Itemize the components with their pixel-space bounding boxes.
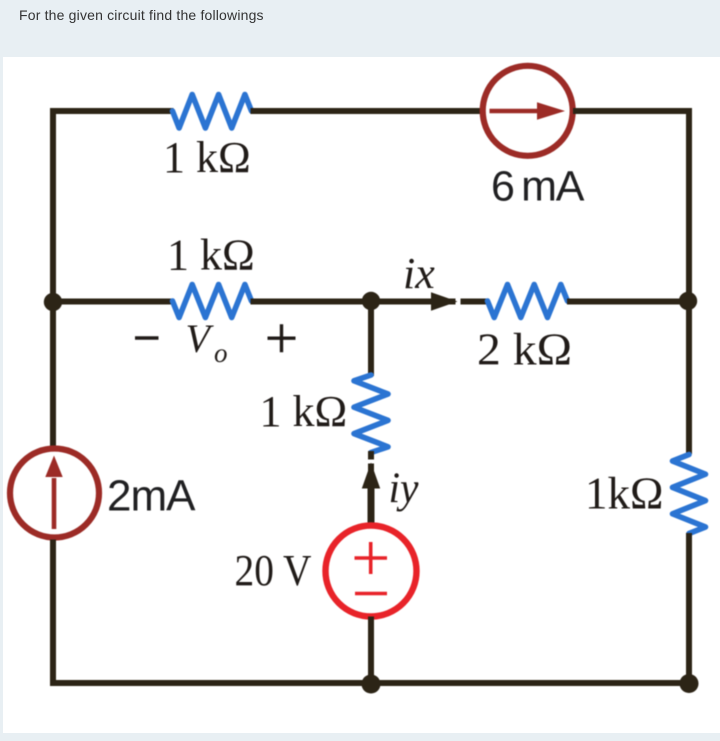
current arrow iy shaft xyxy=(368,486,375,523)
wire: bottom xyxy=(50,680,692,686)
voltage source V1 minus sign xyxy=(355,592,387,596)
svg-text:1kΩ: 1kΩ xyxy=(585,469,663,519)
header bar xyxy=(0,0,720,57)
wire: left side lower segment xyxy=(50,540,56,687)
current source U1 2mA circle xyxy=(10,449,99,538)
title text xyxy=(19,7,264,23)
svg-text:20 V: 20 V xyxy=(235,546,312,595)
label: Vo minus sign xyxy=(135,336,159,339)
svg-text:iy: iy xyxy=(389,465,420,512)
wire: middle row between R2 and R5 (carries ix arrow) xyxy=(251,299,488,305)
current source U2 6mA circle xyxy=(483,66,573,156)
label: Vo plus sign xyxy=(268,324,296,352)
resistor R1 1 kOhm (top, horizontal) xyxy=(173,95,252,129)
wire: middle row right of R5 xyxy=(567,299,689,305)
current arrow iy head xyxy=(362,463,380,489)
wire: center branch top (node A down to R3) xyxy=(368,302,374,377)
junction dot: node center-bottom xyxy=(362,675,381,694)
wire: center branch below 20V source xyxy=(368,617,374,684)
wire: top segment between R1 and 6mA source xyxy=(251,108,483,114)
svg-text:1 kΩ: 1 kΩ xyxy=(163,133,251,182)
svg-text:ix: ix xyxy=(403,249,435,298)
current source U2 arrow xyxy=(490,109,540,114)
svg-text:1 kΩ: 1 kΩ xyxy=(167,231,255,280)
wire: top segment left of R1 xyxy=(50,108,174,114)
junction dot: node right-bottom xyxy=(680,674,699,693)
wire: right side upper segment xyxy=(686,108,692,454)
wire: left side upper segment xyxy=(50,108,56,447)
junction dot: node A (center-middle) xyxy=(362,292,380,310)
wire: right side lower segment xyxy=(686,533,692,686)
voltage source V1 20V circle xyxy=(326,526,417,617)
current arrow ix head xyxy=(431,292,458,310)
svg-text:6 mA: 6 mA xyxy=(491,163,585,211)
wire: middle row left of R2 xyxy=(53,299,174,305)
svg-text:1 kΩ: 1 kΩ xyxy=(260,387,348,436)
wire: top segment right of 6mA source xyxy=(573,108,692,114)
voltage source V1 plus sign xyxy=(355,542,388,574)
wire: center branch between R3 and 20V source (carries iy arrow) xyxy=(368,451,374,527)
resistor R4 1kOhm (right, vertical) xyxy=(673,455,706,534)
junction dot: node left-middle xyxy=(44,293,62,311)
svg-text:V: V xyxy=(186,316,215,361)
resistor R3 1 kOhm (center, vertical) xyxy=(354,375,388,453)
resistor R5 2 kOhm (middle right, horizontal) xyxy=(488,285,568,318)
current source U1 arrow (up) xyxy=(52,478,57,529)
svg-text:2 kΩ: 2 kΩ xyxy=(477,325,572,375)
svg-text:o: o xyxy=(214,338,228,368)
svg-text:2mA: 2mA xyxy=(107,472,196,521)
junction dot: node right-middle xyxy=(679,292,697,310)
resistor R2 1 kOhm (middle, horizontal) xyxy=(173,285,252,318)
